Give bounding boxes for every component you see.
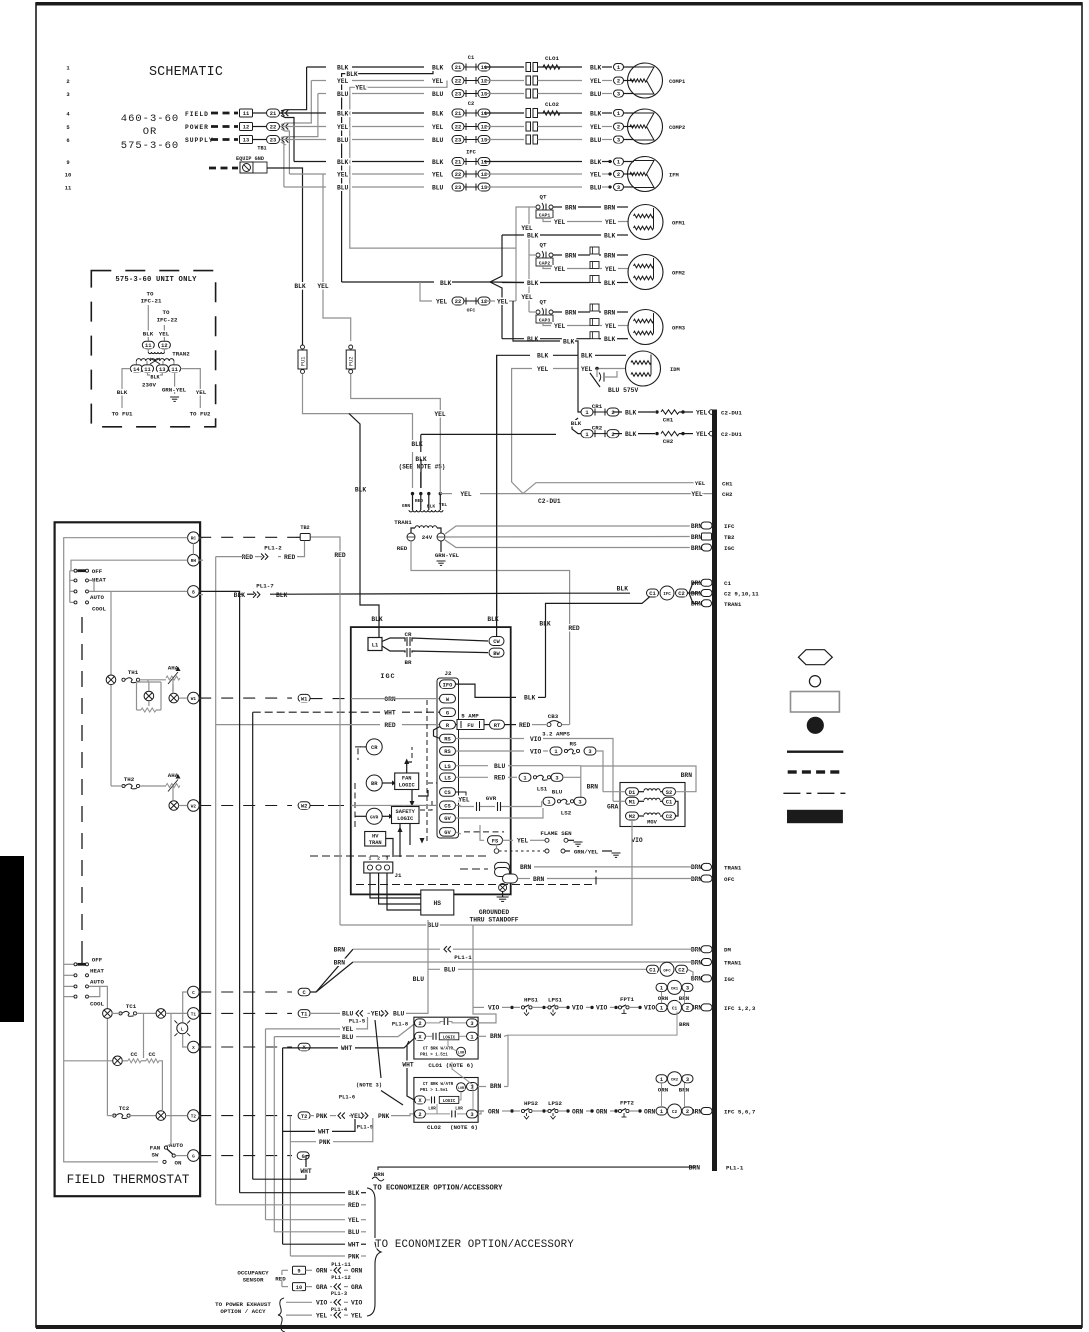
wire RED to CB3: [505, 724, 517, 726]
svg-text:BLK: BLK: [355, 487, 367, 494]
svg-text:BLU: BLU: [444, 967, 456, 974]
svg-text:IFC 5,6,7: IFC 5,6,7: [724, 1109, 756, 1116]
svg-text:BLK: BLK: [527, 336, 539, 343]
wire C2 phase BLU row: [280, 139, 326, 141]
wire WHT G riser: [252, 712, 254, 1179]
pin C2 motor 2: [614, 123, 624, 130]
wire J2-RS1 VIO row: [456, 738, 525, 740]
svg-text:BRN: BRN: [334, 947, 346, 954]
wire OFM3 BLK row: [502, 338, 524, 340]
wire trio to IGC pin: [688, 969, 700, 978]
motor COMP1: [628, 63, 663, 98]
connector C2 pin 3: [452, 136, 464, 144]
svg-text:QT: QT: [540, 242, 547, 249]
svg-text:C2 9,10,11: C2 9,10,11: [724, 591, 759, 598]
svg-text:BLU: BLU: [337, 184, 349, 191]
svg-text:PL1-7: PL1-7: [256, 583, 274, 590]
pin MGV D1: [626, 788, 639, 796]
svg-text:IFC: IFC: [724, 523, 735, 530]
svg-text:3: 3: [617, 138, 620, 144]
pin J2-RS: [440, 747, 456, 756]
svg-text:J2: J2: [445, 670, 452, 677]
svg-text:3: 3: [555, 776, 558, 782]
terminal RC: [188, 532, 200, 544]
svg-text:PNK: PNK: [348, 1253, 360, 1260]
svg-text:LOR: LOR: [455, 1108, 463, 1112]
svg-text:YEL: YEL: [351, 1312, 363, 1319]
connector IFC pin 2: [452, 170, 464, 178]
svg-text:TC1: TC1: [126, 1003, 137, 1010]
svg-text:1: 1: [660, 1077, 663, 1083]
svg-text:BLU: BLU: [432, 137, 444, 144]
svg-text:YEL: YEL: [590, 171, 602, 178]
svg-text:BLU: BLU: [590, 137, 602, 144]
svg-text:BRN: BRN: [565, 309, 577, 316]
wire C2 contact row: [484, 139, 524, 141]
lamp TC1 trunk: [103, 1009, 113, 1019]
svg-text:12: 12: [161, 343, 167, 349]
wire IFC-22 lead: [163, 325, 165, 341]
svg-text:12: 12: [481, 79, 487, 85]
svg-text:C1: C1: [468, 55, 474, 61]
svg-text:PR1 > 1.5±1: PR1 > 1.5±1: [420, 1088, 448, 1093]
wire WHT trunk riser: [282, 1048, 284, 1244]
svg-text:BLU: BLU: [342, 1011, 354, 1018]
svg-text:CR1: CR1: [671, 987, 679, 991]
contactor coil C1: [656, 1003, 667, 1011]
svg-text:YEL: YEL: [436, 299, 448, 306]
svg-text:RED: RED: [275, 1276, 286, 1283]
svg-text:21: 21: [455, 65, 461, 71]
wire field supply lead L1: [211, 112, 238, 115]
wire bundle BLU: [274, 1231, 345, 1233]
wire C1 contact row: [484, 80, 524, 82]
svg-text:WHT: WHT: [318, 1129, 330, 1136]
wire PNK trunk riser: [289, 1116, 291, 1256]
terminal RH: [188, 554, 200, 566]
plug PL1-6 PL1-9 T2 row: [310, 1115, 314, 1117]
svg-text:2: 2: [617, 172, 620, 178]
svg-text:CLO2: CLO2: [427, 1124, 441, 1131]
svg-text:1: 1: [470, 1035, 473, 1041]
svg-text:BLU 575V: BLU 575V: [608, 387, 638, 394]
svg-text:CS: CS: [444, 790, 451, 796]
svg-text:11: 11: [171, 367, 177, 373]
svg-text:ORN: ORN: [351, 1268, 363, 1275]
svg-text:BLK: BLK: [432, 64, 444, 71]
terminal G: [188, 1150, 200, 1162]
wire IDM BLK row: [497, 355, 530, 617]
svg-text:GRN-YEL: GRN-YEL: [435, 552, 460, 559]
wire OFC row: [420, 282, 432, 301]
svg-text:BRN: BRN: [565, 204, 577, 211]
svg-text:6: 6: [66, 137, 69, 144]
svg-text:TB1: TB1: [257, 146, 266, 152]
svg-text:PL1-5: PL1-5: [349, 1019, 365, 1025]
wire WHT X row: [310, 1047, 338, 1049]
pin MGV C1: [663, 797, 676, 805]
svg-text:WHT: WHT: [348, 1242, 360, 1249]
svg-text:11: 11: [481, 65, 487, 71]
motor IFM: [628, 157, 663, 192]
svg-text:LPS1: LPS1: [548, 996, 562, 1003]
legend hexagon marked wire: [798, 650, 832, 665]
terminal C: [188, 986, 200, 998]
svg-text:WHT: WHT: [402, 1062, 414, 1069]
svg-text:YEL: YEL: [316, 1312, 328, 1319]
system switch cool block: [78, 963, 87, 966]
legend circle terminal: [809, 676, 820, 687]
svg-text:CH1: CH1: [663, 417, 674, 424]
svg-text:CLO1: CLO1: [545, 55, 559, 62]
svg-text:575-3-60: 575-3-60: [121, 140, 179, 152]
svg-text:S2: S2: [666, 790, 672, 796]
svg-text:BLU: BLU: [337, 137, 349, 144]
terminal TB1-1: [240, 109, 253, 117]
svg-text:PL1-12: PL1-12: [331, 1275, 350, 1281]
plug arrows TB1: [282, 110, 285, 116]
pin MGV C2: [663, 812, 676, 820]
wire CR1 row: [613, 411, 622, 413]
plug pin 21: [267, 109, 280, 117]
svg-text:CAP3: CAP3: [539, 317, 551, 323]
svg-text:23: 23: [270, 138, 276, 144]
wire TRAN2 ground: [174, 372, 176, 394]
svg-text:BRN: BRN: [679, 1021, 690, 1028]
svg-text:21: 21: [455, 111, 461, 117]
wire BLK IDM feed row: [342, 67, 433, 282]
svg-text:BLK: BLK: [527, 232, 539, 239]
svg-text:MGV: MGV: [647, 820, 657, 826]
svg-text:T1: T1: [191, 1012, 197, 1017]
wire YEL IDM feed row: [350, 81, 516, 249]
svg-text:YEL: YEL: [432, 78, 444, 85]
terminal trunk T1: [298, 1010, 310, 1018]
svg-text:SUPPLY: SUPPLY: [185, 137, 214, 144]
svg-text:11: 11: [481, 160, 487, 166]
wire BRN PL1-1 row to DM: [353, 948, 440, 950]
svg-text:OFC: OFC: [663, 969, 671, 973]
wire FU2 output: [351, 374, 441, 489]
svg-text:BLK: BLK: [604, 232, 616, 239]
terminal trunk X: [298, 1043, 310, 1051]
wire phase3 riser to COMP1: [281, 94, 318, 138]
wire OFM BLK distribution: [342, 281, 434, 283]
connector C1 pin 1: [452, 63, 464, 71]
legend solid bar: [787, 810, 843, 823]
svg-text:2: 2: [611, 432, 614, 438]
legend junction dot: [807, 717, 824, 734]
wire W1 dashed row: [199, 697, 292, 699]
svg-text:BLK: BLK: [581, 353, 593, 360]
anticipator sub-circuit: [147, 680, 149, 682]
wire B row: [89, 590, 188, 592]
svg-text:YEL: YEL: [434, 411, 446, 418]
wire COMP2 motor leads: [624, 112, 635, 114]
svg-text:YEL: YEL: [554, 266, 566, 273]
svg-text:TRAN1: TRAN1: [724, 864, 742, 871]
svg-text:BLU: BLU: [337, 91, 349, 98]
wire YEL C2-DU1 junction: [512, 482, 695, 494]
svg-text:QT: QT: [540, 194, 547, 201]
svg-text:TRAN: TRAN: [369, 840, 382, 846]
svg-text:1: 1: [617, 160, 620, 166]
svg-text:C2: C2: [672, 1110, 678, 1115]
svg-text:BRN: BRN: [334, 959, 346, 966]
wire QT riser joints: [529, 254, 536, 256]
svg-text:FS: FS: [492, 839, 499, 845]
switch LS1: [533, 776, 536, 779]
wire PNK jog row: [290, 1141, 316, 1143]
box IGC control: [351, 627, 511, 894]
plug pin 23: [267, 136, 280, 144]
wire C2 to bus: [666, 1110, 669, 1112]
motor OFM1: [628, 205, 663, 240]
svg-text:IDM: IDM: [670, 367, 680, 373]
svg-text:1: 1: [523, 776, 526, 782]
svg-text:RED: RED: [494, 775, 506, 782]
svg-text:C2-DU1: C2-DU1: [721, 431, 742, 438]
equip gnd lug: [240, 162, 253, 173]
svg-text:1: 1: [617, 111, 620, 117]
svg-text:230V: 230V: [142, 382, 156, 389]
svg-text:3.2 AMPS: 3.2 AMPS: [542, 731, 570, 738]
svg-text:BRN: BRN: [691, 545, 703, 552]
svg-text:GVR: GVR: [370, 814, 379, 820]
svg-text:C1: C1: [724, 580, 731, 587]
pin IFC motor 2: [614, 171, 624, 178]
svg-text:11: 11: [243, 111, 249, 117]
svg-text:YEL: YEL: [590, 78, 602, 85]
connector C2 pin 1: [452, 109, 464, 117]
svg-text:YEL: YEL: [554, 219, 566, 226]
svg-text:BRN: BRN: [520, 864, 532, 871]
svg-text:BLK: BLK: [337, 64, 349, 71]
terminal TB1-2: [240, 123, 253, 131]
svg-text:PL1-9: PL1-9: [357, 1125, 373, 1131]
wire GRA to M1: [613, 800, 626, 802]
svg-text:G: G: [192, 1155, 195, 1160]
svg-text:10: 10: [65, 171, 72, 178]
svg-text:TO: TO: [147, 291, 154, 298]
wire BRN to D1: [603, 791, 626, 793]
svg-text:YEL: YEL: [458, 797, 470, 804]
svg-text:CC: CC: [131, 1051, 138, 1058]
contact C2 phase 1: [526, 109, 531, 118]
svg-text:B: B: [192, 590, 195, 595]
terminal L1: [368, 638, 382, 651]
legend dash-dot line: [783, 792, 845, 794]
capacitor CAP3: [536, 315, 553, 323]
contact C2 phase 2: [526, 122, 531, 131]
svg-text:12: 12: [243, 125, 249, 131]
pin LS1-1: [519, 773, 531, 781]
svg-text:W2: W2: [191, 805, 197, 810]
pin C2 motor 1: [614, 110, 624, 117]
svg-text:13: 13: [159, 367, 165, 373]
svg-text:BRN: BRN: [691, 959, 703, 966]
coil MGV windings: [639, 791, 645, 793]
svg-text:YEL: YEL: [371, 1011, 383, 1018]
svg-text:BLK: BLK: [604, 280, 616, 287]
pin J2-GV: [440, 814, 456, 823]
svg-text:L1: L1: [372, 643, 378, 649]
svg-text:YEL: YEL: [605, 323, 617, 330]
svg-text:C1: C1: [672, 1006, 678, 1011]
svg-text:2: 2: [686, 1109, 689, 1115]
svg-text:12: 12: [481, 299, 487, 305]
svg-text:CAP2: CAP2: [539, 260, 551, 266]
terminal W1: [188, 692, 200, 704]
svg-text:FIELD: FIELD: [185, 111, 209, 118]
wire IFO to BLK riser: [456, 684, 517, 697]
svg-text:C2: C2: [678, 968, 684, 974]
wire C1 phase BLK row: [307, 66, 326, 68]
wire field supply lead L3: [211, 138, 238, 141]
svg-text:L: L: [181, 1026, 184, 1032]
svg-text:YEL: YEL: [605, 219, 617, 226]
pin J2-R: [440, 720, 456, 729]
svg-text:PL1-1: PL1-1: [726, 1164, 744, 1171]
svg-text:GV: GV: [444, 816, 451, 822]
wire CLO2 pin3 ORN row: [478, 1111, 485, 1114]
wire IFC-21 lead: [147, 305, 149, 341]
svg-text:YEL: YEL: [521, 294, 533, 301]
transformer TRAN2: [142, 341, 154, 349]
svg-text:23: 23: [455, 185, 461, 191]
svg-text:BLK: BLK: [294, 283, 306, 290]
coil TRAN2 primary: [136, 359, 174, 361]
motor COMP2: [628, 109, 663, 144]
svg-text:BLK: BLK: [604, 336, 616, 343]
brace economizer bundle: [367, 1188, 381, 1316]
svg-text:BLK: BLK: [117, 389, 128, 396]
svg-text:TO FU2: TO FU2: [190, 411, 211, 418]
legend dashed line: [788, 770, 840, 773]
wire GRA occupancy row: [306, 1286, 313, 1288]
svg-text:2: 2: [66, 78, 69, 85]
svg-text:TO: TO: [163, 309, 170, 316]
svg-text:YEL: YEL: [517, 838, 529, 845]
relay coil BR: [366, 775, 382, 791]
svg-text:12: 12: [481, 125, 487, 131]
svg-text:LOGIC: LOGIC: [443, 1100, 456, 1104]
wire C2 contact row: [484, 126, 524, 128]
wire TC2 to T2: [166, 1115, 188, 1117]
svg-text:OFF: OFF: [92, 568, 103, 575]
svg-text:VIO: VIO: [596, 1005, 608, 1012]
wire phase1 riser to COMP1: [281, 67, 307, 111]
svg-text:THRU STANDOFF: THRU STANDOFF: [469, 917, 518, 924]
svg-text:CAP1: CAP1: [539, 212, 551, 218]
switch TC1: [119, 1012, 122, 1015]
svg-text:2: 2: [611, 410, 614, 416]
svg-text:C2-DU1: C2-DU1: [538, 498, 561, 505]
svg-text:TRAN1: TRAN1: [724, 960, 742, 967]
logic chip CLO2: [439, 1096, 459, 1103]
limit switch LS1: [456, 765, 489, 767]
svg-text:YEL: YEL: [691, 491, 703, 498]
svg-text:1: 1: [585, 410, 588, 416]
svg-text:CT BRK W/ATR: CT BRK W/ATR: [423, 1047, 454, 1052]
svg-text:TH1: TH1: [128, 669, 139, 676]
contact C1 phase 2: [526, 76, 531, 85]
svg-text:3: 3: [686, 986, 689, 992]
capacitor IDM run cap BLU 575V: [596, 369, 598, 378]
capacitor CAP1: [536, 210, 553, 218]
svg-text:VIO: VIO: [351, 1300, 363, 1307]
wire TRAN1 24V fan to bus: [445, 526, 696, 534]
wire RC dashed to TB2: [199, 536, 296, 538]
svg-text:TB2: TB2: [300, 525, 309, 531]
logic chip CLO1: [439, 1033, 459, 1040]
svg-text:DM: DM: [724, 947, 731, 954]
svg-text:ORN: ORN: [384, 696, 396, 703]
wire BLK riser to CR relays: [513, 301, 560, 341]
svg-text:YEL: YEL: [432, 171, 444, 178]
svg-text:BLU: BLU: [348, 1229, 360, 1236]
svg-text:FIELD THERMOSTAT: FIELD THERMOSTAT: [67, 1172, 190, 1187]
pin CLO1-X: [415, 1032, 426, 1040]
svg-text:VIO: VIO: [631, 837, 643, 844]
svg-text:OFM1: OFM1: [672, 221, 685, 227]
svg-text:LS: LS: [444, 764, 451, 770]
lamp TH1 trunk: [106, 675, 116, 685]
terminal W2: [188, 800, 200, 812]
svg-text:G: G: [302, 1154, 305, 1160]
svg-text:TO ECONOMIZER OPTION/ACCESSORY: TO ECONOMIZER OPTION/ACCESSORY: [373, 1185, 503, 1193]
wire TRAN1 RED secondary: [411, 541, 570, 725]
motor OFM3: [628, 310, 663, 345]
terminal CW: [489, 637, 504, 646]
svg-text:YEL: YEL: [342, 1026, 354, 1033]
pin IFC motor 1: [614, 158, 624, 165]
svg-text:T2: T2: [301, 1114, 307, 1120]
wire bundle YEL: [266, 1219, 346, 1221]
svg-text:VIO: VIO: [572, 1005, 584, 1012]
terminal BW: [489, 648, 504, 657]
svg-text:BLK: BLK: [337, 159, 349, 166]
svg-text:BRN: BRN: [587, 784, 599, 791]
svg-text:YEL: YEL: [337, 78, 349, 85]
pin LS1-3: [551, 773, 563, 781]
svg-text:EQUIP GND: EQUIP GND: [236, 156, 264, 162]
box FIELD THERMOSTAT: [55, 522, 201, 1196]
switch TC2: [113, 1114, 116, 1117]
terminal C2-DU1 second: [709, 431, 714, 436]
wire TRAN2 left lead: [122, 369, 130, 408]
logic block FAN LOGIC: [383, 782, 393, 784]
svg-text:23: 23: [455, 92, 461, 98]
svg-text:LS1: LS1: [537, 786, 548, 793]
svg-text:M2: M2: [629, 814, 635, 820]
svg-text:YEL: YEL: [350, 1113, 362, 1120]
wire C dashed row: [199, 991, 292, 993]
svg-text:FAN: FAN: [150, 1145, 161, 1152]
terminal TB1-3: [240, 136, 253, 144]
svg-text:YEL: YEL: [432, 124, 444, 131]
heater CH2: [661, 431, 679, 435]
svg-text:BLK: BLK: [527, 280, 539, 287]
svg-text:FPT2: FPT2: [620, 1100, 634, 1107]
svg-text:BLK: BLK: [617, 585, 629, 592]
svg-text:W1: W1: [301, 696, 307, 702]
terminal BRN OFC out: [503, 874, 518, 883]
wire C2 contact row: [484, 112, 524, 114]
wire G dashed row: [199, 1155, 292, 1157]
svg-text:GROUNDED: GROUNDED: [479, 909, 509, 916]
svg-text:ON: ON: [175, 1160, 182, 1167]
